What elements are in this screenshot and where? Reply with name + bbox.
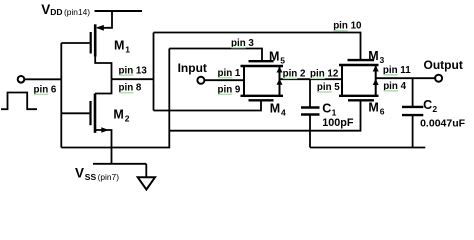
pin 4 label bbox=[383, 81, 406, 92]
wire M1 drain to inverter output node bbox=[95, 56, 111, 80]
pin 9 label bbox=[218, 85, 241, 96]
arrow M6 substrate on pin 11 node bbox=[373, 79, 379, 85]
transistor M3 (top of transmission gate 2) bbox=[339, 60, 379, 65]
svg-text:2: 2 bbox=[125, 114, 130, 124]
capacitor C1 bbox=[301, 79, 320, 147]
svg-text:(pin7): (pin7) bbox=[98, 172, 120, 182]
wire TG2 to Output terminal bbox=[376, 77, 436, 79]
wire TG2 left vertical (pins 12/5 node) bbox=[341, 65, 343, 96]
wire M2 drain to inverter output node bbox=[95, 79, 112, 93]
wire TG2 right vertical (pin 11 node) bbox=[375, 65, 377, 96]
wire inverter output node (pins 13/8 tied) bbox=[112, 78, 154, 80]
svg-text:Input: Input bbox=[178, 61, 207, 75]
svg-text:(pin14): (pin14) bbox=[64, 7, 90, 17]
arrow M5 substrate on pin 2 node bbox=[277, 67, 283, 73]
pin 12 label bbox=[310, 69, 339, 80]
transistor M1 (PMOS, source to VDD) bbox=[61, 11, 112, 57]
pin 3 label bbox=[231, 38, 254, 49]
svg-text:4: 4 bbox=[281, 108, 286, 118]
transistor M4 (bottom of transmission gate 1) bbox=[241, 96, 284, 101]
label M6 bbox=[368, 101, 384, 117]
svg-text:2: 2 bbox=[432, 104, 437, 114]
svg-text:C: C bbox=[322, 102, 331, 116]
value label 0.0047uF bbox=[420, 117, 466, 129]
transistor M2 (NMOS, source to VSS) bbox=[61, 94, 109, 133]
svg-text:0.0047uF: 0.0047uF bbox=[420, 117, 466, 129]
wire pin 2 to pin 12 bbox=[280, 78, 343, 80]
svg-text:M: M bbox=[368, 49, 378, 63]
svg-text:5: 5 bbox=[280, 55, 285, 65]
pin 1 label bbox=[218, 68, 241, 79]
node pin 6 clock input terminal bbox=[18, 76, 25, 83]
wire pin 10 net (inverted clock to M3 gate) bbox=[154, 33, 361, 61]
value label 100pF bbox=[322, 117, 354, 129]
Output label bbox=[424, 58, 463, 72]
pin 13 label bbox=[119, 65, 148, 76]
label M3 bbox=[368, 49, 384, 65]
svg-text:3: 3 bbox=[380, 55, 385, 65]
node Output terminal bbox=[435, 75, 442, 82]
wire pin 3 net (clock to M5 gate) bbox=[169, 49, 262, 62]
label M2 bbox=[113, 108, 129, 124]
wire VSS rail bbox=[93, 163, 146, 165]
pin 6 label bbox=[34, 85, 57, 96]
wire VDD rail bbox=[95, 10, 143, 12]
wire clock to M6 gate bbox=[169, 100, 360, 130]
svg-text:1: 1 bbox=[125, 45, 130, 55]
Input label bbox=[178, 61, 207, 75]
transistor M6 (bottom of transmission gate 2) bbox=[339, 96, 379, 101]
label M4 bbox=[270, 102, 286, 118]
power VDD label (pin14) bbox=[41, 2, 90, 17]
power VSS label (pin7) bbox=[75, 165, 119, 182]
wire inverted clock to M4 gate bbox=[154, 100, 262, 110]
pin 10 label bbox=[333, 21, 362, 32]
wire M1/M2 common gate vertical (pin 6 net) bbox=[60, 43, 62, 148]
wire clock return run along bottom bbox=[61, 49, 169, 148]
transistor M5 (top of transmission gate 1) bbox=[241, 61, 284, 66]
arrow M4 substrate on pin 2 node bbox=[277, 79, 283, 85]
svg-text:6: 6 bbox=[380, 107, 385, 117]
svg-text:M: M bbox=[368, 101, 378, 115]
svg-text:100pF: 100pF bbox=[322, 117, 354, 129]
svg-text:DD: DD bbox=[50, 7, 62, 17]
svg-text:M: M bbox=[114, 39, 124, 53]
wire TG1 left vertical (pins 1/9 node) bbox=[243, 66, 245, 96]
svg-text:M: M bbox=[269, 49, 279, 63]
svg-text:V: V bbox=[41, 2, 50, 17]
pin 11 label bbox=[383, 65, 411, 76]
wire pin 6 terminal to gate column bbox=[25, 78, 62, 80]
svg-text:Output: Output bbox=[424, 58, 463, 72]
label C2 bbox=[423, 98, 437, 114]
wire C1/C2 bottom common bbox=[310, 147, 425, 149]
wire inverter output vertical riser bbox=[153, 33, 155, 111]
svg-text:V: V bbox=[75, 165, 84, 180]
label M5 bbox=[269, 49, 285, 65]
label M1 bbox=[114, 39, 130, 55]
wire TG1 right vertical (pin 2 node) bbox=[279, 66, 281, 96]
wire Input terminal to TG1 bbox=[205, 79, 244, 81]
wire M2 source down to VSS rail bbox=[95, 130, 112, 164]
node Input terminal bbox=[197, 77, 204, 84]
pin 8 label bbox=[119, 83, 142, 94]
ground bbox=[145, 164, 147, 178]
svg-text:C: C bbox=[423, 98, 432, 112]
svg-text:M: M bbox=[113, 108, 123, 122]
arrow M3 substrate on pin 11 node bbox=[373, 65, 379, 71]
square wave clock source symbol bbox=[1, 93, 37, 110]
svg-text:SS: SS bbox=[85, 172, 97, 182]
pin 2 label bbox=[283, 69, 306, 80]
svg-text:1: 1 bbox=[332, 108, 337, 118]
label C1 bbox=[322, 102, 336, 118]
svg-text:M: M bbox=[270, 102, 280, 116]
pin 5 label bbox=[317, 82, 340, 93]
capacitor C2 bbox=[402, 78, 423, 147]
